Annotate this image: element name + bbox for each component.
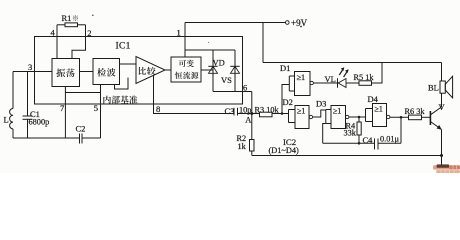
wire R5 to rail bbox=[372, 63, 383, 84]
wire pin 6 bbox=[213, 83, 252, 93]
resistor R6 3k bbox=[405, 107, 430, 120]
wire astable feedback line bbox=[323, 124, 401, 144]
gate D1 bbox=[280, 63, 313, 96]
wire R3 to gates bbox=[272, 112, 289, 115]
wire D2 to D3 bbox=[313, 110, 326, 117]
svg-text:8: 8 bbox=[156, 104, 160, 114]
LED VL bbox=[325, 67, 349, 88]
svg-text:A: A bbox=[245, 115, 252, 125]
svg-text:3: 3 bbox=[28, 62, 32, 72]
transistor V bbox=[430, 93, 445, 155]
wire node to D1 input bbox=[282, 85, 289, 114]
label IC2 bbox=[269, 137, 300, 155]
resistor R5 1k bbox=[354, 73, 375, 86]
wire right supply rail bbox=[263, 62, 442, 64]
zener VS bbox=[221, 50, 240, 92]
label internal reference 内部基准 bbox=[103, 96, 137, 104]
wire diode top bus bbox=[185, 49, 235, 51]
wire pin 4 bbox=[51, 25, 58, 59]
wire pin 3 to tank bbox=[13, 62, 52, 72]
svg-text:R3 10k: R3 10k bbox=[255, 105, 280, 114]
oscillator block 振荡 bbox=[52, 59, 80, 87]
svg-text:C3: C3 bbox=[225, 106, 235, 116]
svg-text:D1: D1 bbox=[280, 63, 290, 73]
gate D3 bbox=[316, 99, 349, 129]
svg-text:BL: BL bbox=[428, 83, 439, 93]
capacitor C3 10p bbox=[225, 105, 252, 116]
diode VD bbox=[208, 50, 224, 92]
wire +9V branch to gate rail bbox=[262, 23, 264, 63]
resistor R4 33k bbox=[344, 117, 362, 145]
svg-text:33k: 33k bbox=[344, 128, 357, 137]
svg-text:(D1~D4): (D1~D4) bbox=[269, 146, 300, 155]
inductor L bbox=[4, 72, 14, 139]
capacitor C2 bbox=[76, 124, 101, 144]
wire LED to R5 bbox=[346, 82, 359, 84]
svg-text:7: 7 bbox=[60, 103, 64, 113]
svg-text:VL: VL bbox=[325, 74, 336, 84]
svg-text:≥1: ≥1 bbox=[297, 73, 306, 82]
svg-text:1k: 1k bbox=[238, 142, 247, 151]
svg-text:IC1: IC1 bbox=[116, 42, 131, 52]
svg-text:V: V bbox=[439, 102, 446, 112]
resistor R3 10k bbox=[255, 105, 280, 116]
gate D2 bbox=[283, 97, 313, 129]
wire C4 feedback riser bbox=[400, 117, 402, 143]
svg-text:2: 2 bbox=[87, 28, 91, 38]
watermark bbox=[433, 164, 460, 173]
svg-text:6: 6 bbox=[243, 83, 247, 93]
+9V supply terminal bbox=[286, 18, 308, 28]
svg-text:C2: C2 bbox=[76, 124, 86, 134]
gate D4 bbox=[366, 94, 390, 127]
svg-text:≥1: ≥1 bbox=[333, 107, 342, 116]
wire D1 output to LED bbox=[313, 82, 337, 84]
resistor R2 1k bbox=[237, 114, 255, 156]
wire pin 2 bbox=[72, 25, 91, 59]
wire current source to diodes bbox=[201, 69, 213, 71]
svg-text:D4: D4 bbox=[368, 94, 379, 104]
speaker BL bbox=[428, 76, 453, 98]
svg-text:R6 3k: R6 3k bbox=[405, 107, 426, 116]
wire +9V top rail bbox=[185, 22, 286, 24]
svg-text:L: L bbox=[4, 115, 9, 125]
variable constant current source 可变恒流源 bbox=[171, 57, 201, 82]
svg-text:6800p: 6800p bbox=[29, 118, 50, 127]
wire internal reference to comparator bbox=[115, 78, 129, 90]
dust specks bbox=[92, 15, 302, 44]
wire pin 8 bbox=[154, 75, 235, 114]
wire pins 7-5 internal link bbox=[65, 92, 100, 94]
detector block 检波 bbox=[93, 59, 120, 85]
svg-text:≥1: ≥1 bbox=[374, 105, 383, 114]
svg-text:D3: D3 bbox=[316, 99, 326, 109]
wire ground rail bbox=[252, 154, 443, 166]
wire D4 output to transistor base bbox=[390, 116, 409, 119]
svg-text:10p: 10p bbox=[239, 105, 251, 114]
svg-text:VD: VD bbox=[213, 58, 225, 68]
wire tank bottom bbox=[13, 137, 80, 139]
svg-text:5: 5 bbox=[94, 103, 98, 113]
svg-text:≥1: ≥1 bbox=[297, 107, 306, 116]
wire rail to speaker BL bbox=[441, 63, 443, 82]
svg-text:C4: C4 bbox=[363, 135, 374, 145]
comparator 比较 bbox=[136, 57, 165, 84]
svg-text:R1: R1 bbox=[62, 13, 72, 23]
wire oscillator to detector bbox=[80, 71, 94, 73]
op-amp IC1 outline box bbox=[35, 37, 243, 105]
wire pin 1 riser bbox=[177, 23, 186, 58]
capacitor C4 0.01u bbox=[363, 134, 400, 149]
wire detector to comparator bbox=[120, 63, 137, 65]
svg-text:0.01μ: 0.01μ bbox=[380, 134, 400, 143]
node A bbox=[245, 112, 253, 125]
wire D3 to D4 bbox=[349, 116, 366, 119]
capacitor C1 6800p bbox=[23, 72, 50, 139]
svg-text:R5 1k: R5 1k bbox=[354, 73, 375, 82]
wire pin 6 drop to node A bbox=[251, 92, 253, 114]
resistor R1 bbox=[57, 13, 86, 27]
svg-text:D2: D2 bbox=[283, 97, 293, 107]
svg-text:+9V: +9V bbox=[291, 18, 308, 28]
wire pin 7 bbox=[60, 87, 65, 139]
wire pin 5 bbox=[94, 85, 101, 139]
svg-text:VS: VS bbox=[221, 75, 232, 85]
wire comparator to current source bbox=[165, 69, 171, 71]
wire C3 to node A bbox=[238, 113, 260, 115]
